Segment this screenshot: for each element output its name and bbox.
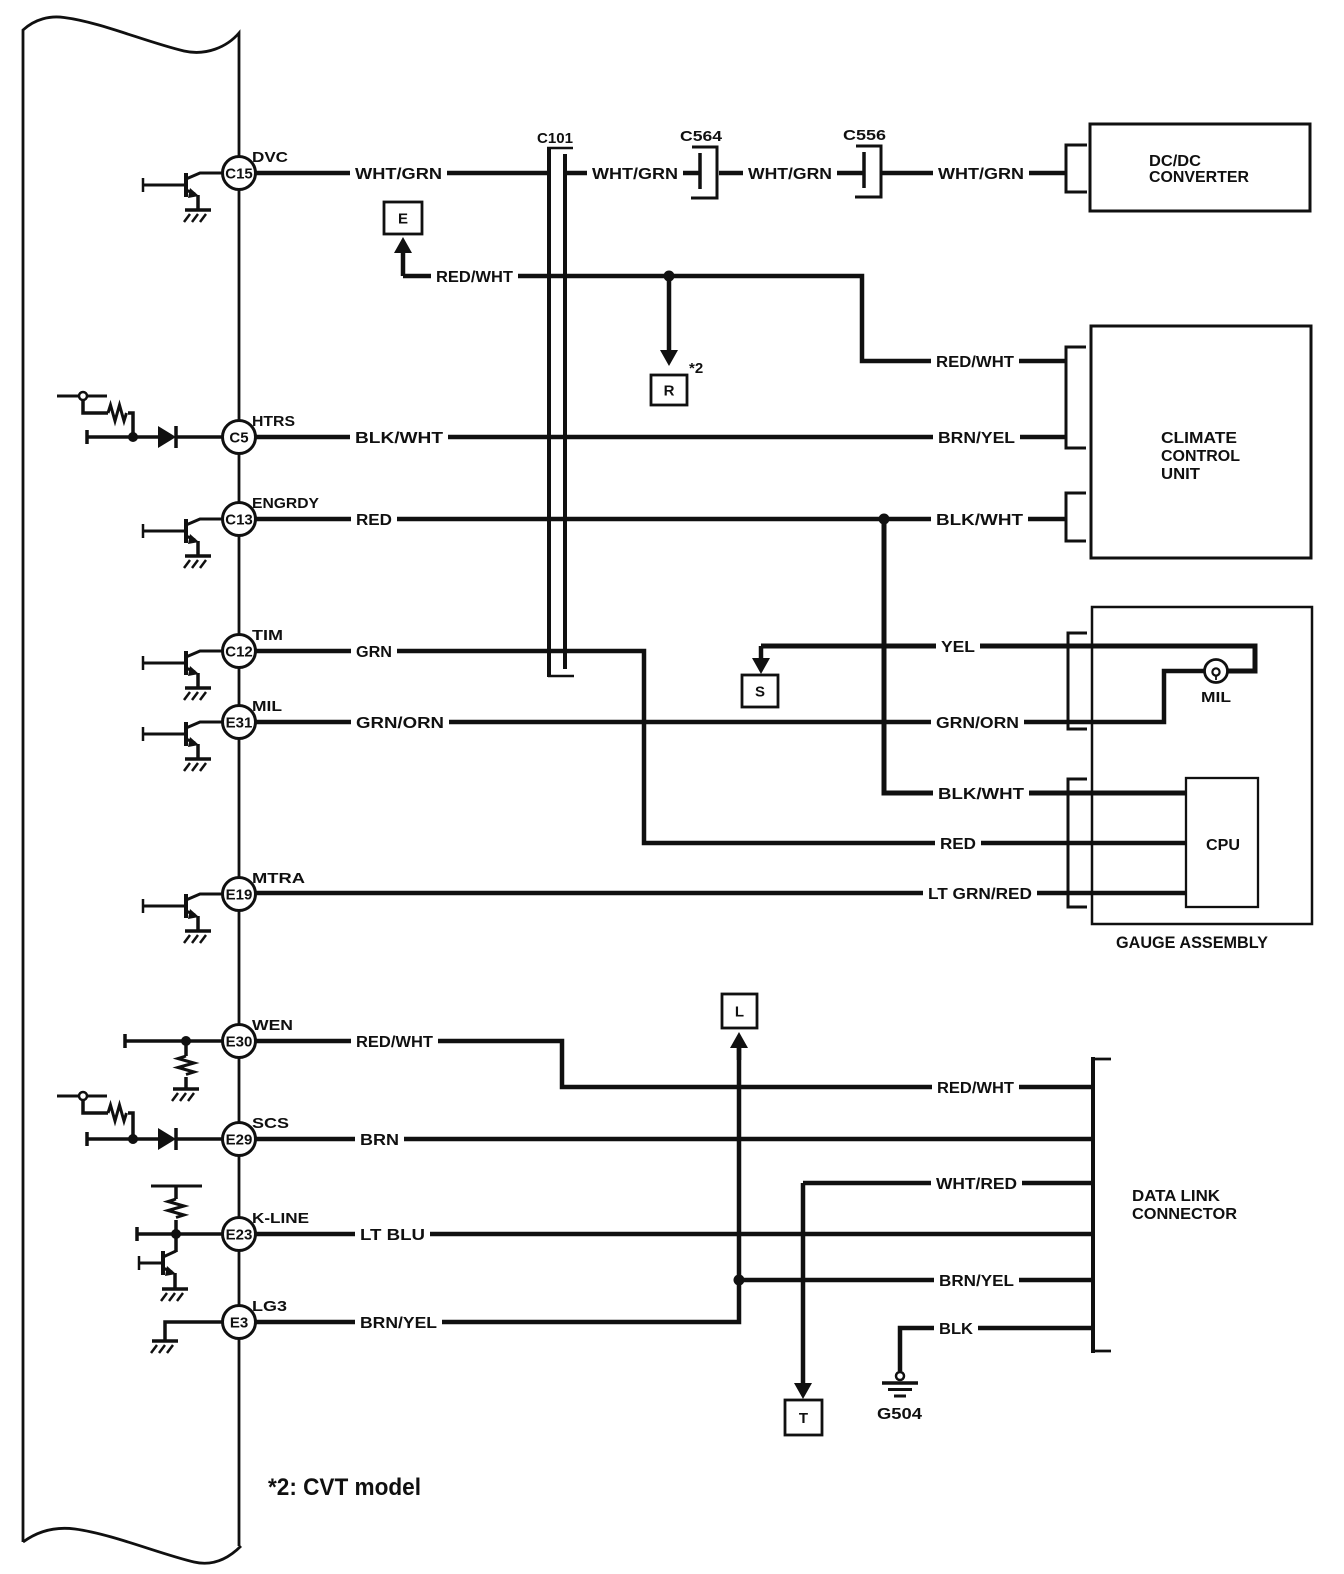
svg-text:RED/WHT: RED/WHT bbox=[436, 269, 514, 286]
wire WHT/GRN stub right of C101 bbox=[565, 171, 588, 176]
ground (E3) bbox=[151, 1341, 178, 1353]
svg-text:MTRA: MTRA bbox=[252, 870, 305, 887]
node (C5 pull-up source) bbox=[57, 392, 107, 400]
svg-text:S: S bbox=[755, 684, 765, 701]
resistor (E30 pull-down R) bbox=[178, 1056, 194, 1075]
label WHT/GRN 1 bbox=[350, 166, 447, 184]
wire DVC WHT/GRN (C15 to C101) bbox=[255, 171, 547, 176]
wire LG3 BRN/YEL (E3 up to L / data link) bbox=[255, 1048, 739, 1322]
wire MIL MIL GRN/ORN (E31 to gauge) bbox=[255, 671, 1205, 722]
svg-text:TIM: TIM bbox=[252, 627, 283, 644]
transistor C12 driver (NPN driver) bbox=[143, 651, 223, 688]
connector bracket (climate control upper connector) bbox=[1066, 347, 1086, 448]
CPU box (inside gauge assembly) bbox=[1186, 778, 1258, 907]
svg-text:C564: C564 bbox=[680, 128, 723, 145]
ground (C15 driver emitter) bbox=[184, 210, 211, 222]
label BRN/YEL climate bbox=[933, 430, 1020, 448]
wire C5 pull-up to wire bbox=[128, 413, 133, 437]
wire C5 pull-up link bbox=[83, 400, 108, 413]
svg-text:C13: C13 bbox=[225, 512, 253, 529]
svg-text:WHT/GRN: WHT/GRN bbox=[355, 166, 442, 183]
wire C5 base lead bbox=[87, 430, 158, 444]
wire YEL (gauge to S) bbox=[761, 646, 1255, 671]
label BRN E29 bbox=[355, 1132, 404, 1150]
junction E30 junction bbox=[181, 1036, 191, 1046]
ground (E19 driver emitter) bbox=[184, 931, 211, 943]
svg-text:LG3: LG3 bbox=[252, 1298, 287, 1315]
label RED/WHT 1 bbox=[431, 269, 518, 287]
wire C5 diode to pin bbox=[176, 435, 223, 439]
wire E29 diode to pin bbox=[176, 1137, 223, 1141]
ground (C12 driver emitter) bbox=[184, 688, 211, 700]
label LT GRN/RED gauge bbox=[923, 886, 1037, 904]
svg-text:WEN: WEN bbox=[252, 1017, 293, 1034]
connector C564 bbox=[691, 147, 717, 198]
junction BRN/YEL junction at L line bbox=[734, 1275, 745, 1286]
wire WHT/GRN (C101 to C564) bbox=[592, 171, 699, 176]
connector C101 (two-bar inline connector) bbox=[547, 148, 574, 677]
indicator lamp MIL bbox=[1205, 660, 1228, 683]
svg-text:C556: C556 bbox=[843, 127, 886, 144]
resistor (E23 pull-up R) bbox=[168, 1199, 184, 1218]
label BRN/YEL DLC bbox=[934, 1273, 1019, 1291]
ground (E31 driver emitter) bbox=[184, 759, 211, 771]
node (E29 pull-up source) bbox=[57, 1092, 107, 1100]
connector bracket (gauge assembly lower connector) bbox=[1068, 779, 1087, 907]
wire BLK (data link connector to G504) bbox=[900, 1328, 1093, 1371]
wire HTRS BLK/WHT - BRN/YEL (C5 to climate control) bbox=[255, 435, 1066, 440]
wire WEN RED/WHT (E30 to data link connector) bbox=[255, 1041, 1093, 1087]
connector C556 bbox=[855, 146, 881, 197]
connector pin E29 (SCS) bbox=[223, 1115, 290, 1156]
svg-text:C101: C101 bbox=[537, 130, 573, 147]
wire E30 resistor link bbox=[184, 1041, 188, 1056]
wire E23 pull-up link bbox=[174, 1186, 178, 1199]
arrow up (into E) bbox=[394, 237, 412, 276]
svg-text:CONTROL: CONTROL bbox=[1161, 448, 1240, 465]
label BLK DLC bbox=[934, 1321, 978, 1339]
svg-text:LT GRN/RED: LT GRN/RED bbox=[928, 886, 1032, 903]
svg-text:UNIT: UNIT bbox=[1161, 466, 1201, 483]
junction C5 junction bbox=[128, 432, 138, 442]
label WHT/GRN 4 bbox=[933, 166, 1029, 184]
wire ENGRDY RED - BLK/WHT (C13 to climate control) bbox=[255, 517, 1066, 522]
data link connector bracket bbox=[1093, 1057, 1111, 1353]
resistor (C5 pull-up R) bbox=[108, 405, 127, 421]
label LT BLU E23 bbox=[355, 1227, 430, 1245]
svg-text:RED/WHT: RED/WHT bbox=[356, 1034, 434, 1051]
junction E29 junction bbox=[128, 1134, 138, 1144]
svg-text:R: R bbox=[664, 383, 675, 400]
resistor (E29 pull-up R) bbox=[108, 1105, 127, 1121]
svg-text:K-LINE: K-LINE bbox=[252, 1210, 309, 1227]
wire WHT/GRN (C556 to DC/DC converter) bbox=[881, 171, 1066, 176]
svg-text:T: T bbox=[799, 1410, 808, 1427]
sheet-reference box E (to sheet E) bbox=[384, 202, 422, 234]
wire K-LINE LT BLU (E23 to data link connector) bbox=[255, 1232, 1093, 1237]
label BLK/WHT climate bbox=[931, 512, 1028, 530]
svg-text:BLK/WHT: BLK/WHT bbox=[936, 512, 1024, 529]
connector pin E30 (WEN) bbox=[223, 1017, 294, 1058]
sheet-reference box L (to sheet L) bbox=[722, 994, 757, 1028]
transistor C13 driver (NPN driver) bbox=[143, 519, 223, 556]
arrow down (to S) bbox=[752, 646, 770, 674]
label BLK/WHT C5 bbox=[350, 430, 448, 448]
svg-text:DVC: DVC bbox=[252, 149, 288, 166]
wire E29 base lead bbox=[87, 1132, 158, 1146]
svg-text:LT BLU: LT BLU bbox=[360, 1227, 425, 1244]
svg-text:RED/WHT: RED/WHT bbox=[937, 1080, 1015, 1097]
connector pin E23 (K-LINE) bbox=[223, 1210, 310, 1251]
svg-text:E30: E30 bbox=[226, 1034, 253, 1051]
connector pin C5 (HTRS) bbox=[223, 413, 296, 454]
svg-text:MIL: MIL bbox=[252, 698, 282, 715]
sheet-reference box S (to sheet S) bbox=[742, 675, 778, 707]
connector pin E3 (LG3) bbox=[223, 1298, 288, 1339]
svg-text:*2: *2 bbox=[689, 360, 703, 377]
svg-text:CONNECTOR: CONNECTOR bbox=[1132, 1206, 1237, 1223]
wire E3 lead bbox=[165, 1322, 223, 1340]
svg-text:CLIMATE: CLIMATE bbox=[1161, 430, 1237, 447]
svg-text:GRN/ORN: GRN/ORN bbox=[936, 715, 1019, 732]
svg-text:GAUGE ASSEMBLY: GAUGE ASSEMBLY bbox=[1116, 933, 1269, 952]
connector bracket (climate control lower connector) bbox=[1066, 493, 1086, 541]
svg-text:E23: E23 bbox=[226, 1227, 253, 1244]
climate control unit box bbox=[1091, 326, 1311, 558]
transistor E19 driver (NPN driver) bbox=[143, 894, 223, 931]
connector pin C15 (DVC) bbox=[223, 149, 289, 190]
svg-text:E31: E31 bbox=[226, 715, 253, 732]
label RED/WHT E30 bbox=[351, 1034, 438, 1052]
wire MTRA LT GRN/RED (E19 to gauge CPU) bbox=[255, 891, 1186, 896]
svg-text:BRN/YEL: BRN/YEL bbox=[360, 1315, 437, 1332]
wire WHT/RED (data link connector to T) bbox=[803, 1181, 1093, 1186]
transistor C15 driver (NPN driver) bbox=[143, 173, 223, 210]
label RED gauge bbox=[935, 836, 981, 854]
wire WHT/GRN (C564 to C556) bbox=[719, 171, 863, 176]
wire SCS BRN (E29 to data link connector) bbox=[255, 1137, 1093, 1142]
svg-text:DATA LINK: DATA LINK bbox=[1132, 1188, 1220, 1205]
label YEL gauge bbox=[936, 639, 980, 657]
wire E30 lead bbox=[125, 1034, 223, 1048]
wire BRN/YEL branch to data link connector bbox=[739, 1278, 1093, 1283]
sheet-reference box R (to sheet R) bbox=[651, 375, 687, 405]
svg-text:MIL: MIL bbox=[1201, 689, 1231, 706]
svg-text:HTRS: HTRS bbox=[252, 413, 295, 430]
label BLK/WHT gauge bbox=[933, 786, 1029, 804]
diode (C5 diode) bbox=[158, 426, 176, 448]
wire E23 pull-up top rail bbox=[151, 1185, 202, 1188]
ground (E23 emitter) bbox=[161, 1289, 188, 1301]
label GRN/ORN E31 bbox=[351, 715, 449, 733]
svg-text:G504: G504 bbox=[877, 1406, 922, 1423]
connector bracket (DC/DC converter connector) bbox=[1066, 145, 1087, 192]
junction RED/WHT junction bbox=[664, 271, 675, 282]
label GRN/ORN gauge bbox=[931, 715, 1024, 733]
svg-text:BLK/WHT: BLK/WHT bbox=[355, 430, 444, 447]
ground (C13 driver emitter) bbox=[184, 556, 211, 568]
transistor E31 driver (NPN driver) bbox=[143, 722, 223, 759]
connector pin C12 (TIM) bbox=[223, 627, 284, 668]
svg-text:C12: C12 bbox=[225, 644, 253, 661]
svg-text:C5: C5 bbox=[229, 430, 248, 447]
svg-text:C15: C15 bbox=[225, 166, 253, 183]
svg-text:WHT/RED: WHT/RED bbox=[936, 1176, 1017, 1193]
svg-text:RED/WHT: RED/WHT bbox=[936, 354, 1015, 371]
wire BLK/WHT branch to gauge CPU bbox=[884, 519, 1186, 793]
svg-text:BLK: BLK bbox=[939, 1321, 974, 1338]
junction E23 junction bbox=[171, 1229, 181, 1239]
svg-text:GRN/ORN: GRN/ORN bbox=[356, 715, 444, 732]
ground (E30 pull-down) bbox=[172, 1089, 199, 1101]
svg-text:E3: E3 bbox=[230, 1315, 248, 1332]
svg-text:GRN: GRN bbox=[356, 644, 392, 661]
label WHT/GRN 3 bbox=[743, 166, 837, 184]
svg-text:CONVERTER: CONVERTER bbox=[1149, 169, 1249, 186]
connector bracket (gauge assembly upper connector) bbox=[1068, 633, 1087, 729]
svg-text:E19: E19 bbox=[226, 887, 253, 904]
svg-text:CPU: CPU bbox=[1206, 837, 1240, 854]
connector pin E31 (MIL) bbox=[223, 698, 283, 739]
connector pin E19 (MTRA) bbox=[223, 870, 306, 911]
DC/DC converter box bbox=[1090, 124, 1310, 211]
transistor E23 driver (NPN) bbox=[139, 1251, 176, 1288]
wire RED/WHT (to E and climate control) bbox=[403, 276, 1066, 361]
diode (E29 diode) bbox=[158, 1128, 176, 1150]
label WHT/GRN 2 bbox=[587, 166, 683, 184]
arrow up (into L) bbox=[730, 1032, 748, 1060]
svg-text:BRN/YEL: BRN/YEL bbox=[938, 430, 1015, 447]
ECM/PCM module boundary (torn-paper edge box) bbox=[23, 17, 239, 1546]
svg-text:L: L bbox=[735, 1004, 744, 1021]
ground G504 (chassis) bbox=[882, 1372, 918, 1396]
svg-text:ENGRDY: ENGRDY bbox=[252, 495, 319, 512]
wire E29 pull-up to wire bbox=[128, 1113, 133, 1139]
svg-text:WHT/GRN: WHT/GRN bbox=[592, 166, 678, 183]
svg-text:DC/DC: DC/DC bbox=[1149, 153, 1201, 170]
arrow down (to T) bbox=[794, 1183, 812, 1399]
svg-text:RED: RED bbox=[356, 512, 392, 529]
svg-text:WHT/GRN: WHT/GRN bbox=[748, 166, 832, 183]
wire E23 pull-up to wire bbox=[174, 1220, 178, 1252]
sheet-reference box T (to sheet T) bbox=[785, 1400, 822, 1435]
module boundary bottom torn edge bbox=[23, 1528, 241, 1563]
svg-text:E: E bbox=[398, 211, 408, 228]
gauge assembly box bbox=[1092, 607, 1312, 924]
svg-text:RED: RED bbox=[940, 836, 976, 853]
svg-text:BRN: BRN bbox=[360, 1132, 399, 1149]
svg-text:BRN/YEL: BRN/YEL bbox=[939, 1273, 1014, 1290]
wire E23 lead bbox=[137, 1227, 223, 1241]
junction BLK/WHT junction bbox=[879, 514, 890, 525]
svg-text:*2: CVT model: *2: CVT model bbox=[268, 1474, 421, 1501]
label RED/WHT DLC bbox=[932, 1080, 1019, 1098]
label RED C13 bbox=[351, 512, 397, 530]
wire E30 resistor to ground bbox=[184, 1077, 188, 1088]
svg-text:WHT/GRN: WHT/GRN bbox=[938, 166, 1024, 183]
label WHT/RED DLC bbox=[931, 1176, 1022, 1194]
label RED/WHT climate bbox=[931, 354, 1019, 372]
svg-text:YEL: YEL bbox=[941, 639, 975, 656]
wire TIM GRN - RED (C12 to gauge CPU) bbox=[255, 651, 1186, 843]
svg-text:SCS: SCS bbox=[252, 1115, 289, 1132]
wire E29 pull-up link bbox=[83, 1100, 108, 1113]
svg-text:E29: E29 bbox=[226, 1132, 253, 1149]
label GRN C12 bbox=[351, 644, 397, 662]
connector pin C13 (ENGRDY) bbox=[223, 495, 320, 536]
arrow down (to R) bbox=[660, 276, 678, 366]
label BRN/YEL E3 bbox=[355, 1315, 442, 1333]
svg-text:BLK/WHT: BLK/WHT bbox=[938, 786, 1025, 803]
